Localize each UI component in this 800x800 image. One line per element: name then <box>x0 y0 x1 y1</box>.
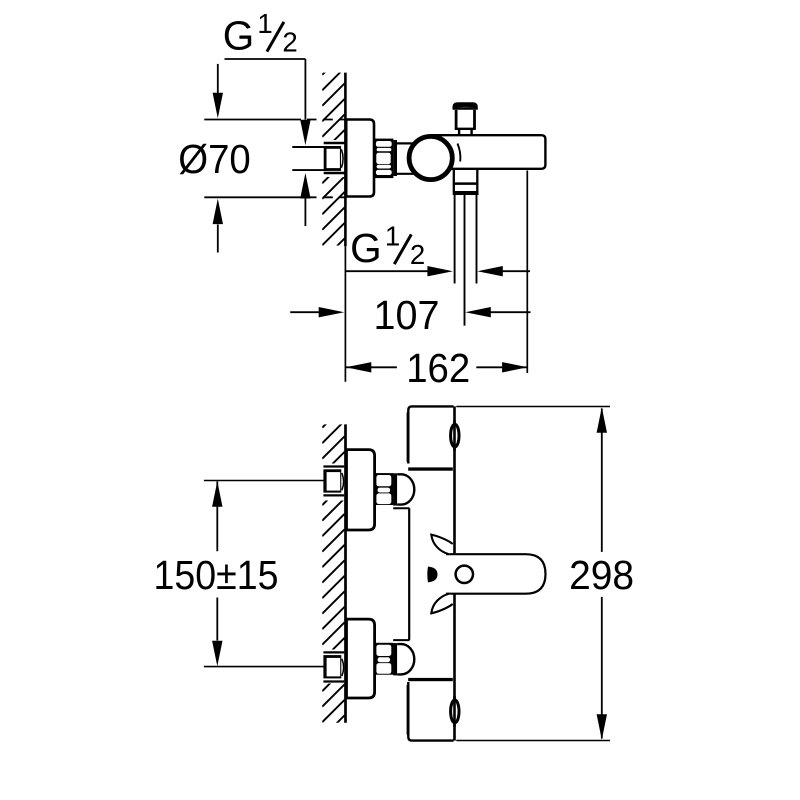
svg-text:2: 2 <box>410 239 425 270</box>
svg-text:298: 298 <box>569 552 634 598</box>
svg-text:1: 1 <box>385 220 400 251</box>
svg-text:162: 162 <box>406 345 470 391</box>
svg-text:2: 2 <box>282 26 297 57</box>
svg-text:G: G <box>350 225 382 271</box>
svg-text:150±15: 150±15 <box>154 552 279 598</box>
svg-text:Ø70: Ø70 <box>178 136 251 182</box>
svg-text:1: 1 <box>257 8 272 39</box>
svg-text:107: 107 <box>374 292 440 338</box>
svg-text:G: G <box>223 13 255 59</box>
